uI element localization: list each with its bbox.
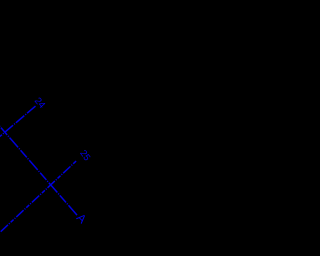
svg-text:24: 24 bbox=[32, 96, 48, 112]
centerline 25 (lower perpendicular line through axis) bbox=[0, 161, 76, 234]
axis centerline B (long line toward label A) bbox=[0, 125, 77, 215]
centerline 24 (upper perpendicular tick line) bbox=[0, 106, 36, 138]
svg-text:25: 25 bbox=[78, 148, 93, 163]
